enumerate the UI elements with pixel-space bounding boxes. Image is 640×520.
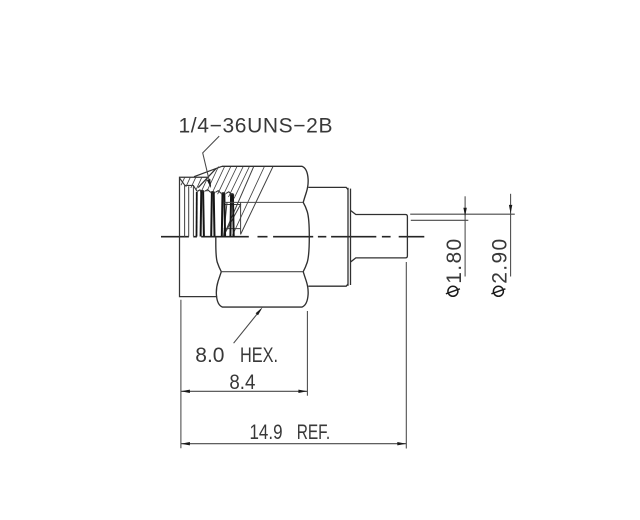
hatch strokes: [181, 167, 264, 236]
dim line dia 1.80: [464, 196, 466, 276]
thread root caps: [200, 191, 234, 196]
bore line third: [192, 186, 194, 236]
centerline: [161, 236, 424, 238]
section interior lines: [224, 202, 241, 235]
svg-text:8.4: 8.4: [229, 371, 255, 394]
extension line dia 2.90: [410, 213, 515, 215]
svg-text:8.0: 8.0: [195, 344, 224, 367]
svg-text:HEX.: HEX.: [240, 344, 278, 367]
dia symbol 2.90: [491, 286, 505, 296]
bore line left: [184, 186, 186, 237]
thread barrel chamfer and bore step: [180, 178, 197, 191]
svg-text:1/4−36UNS−2B: 1/4−36UNS−2B: [179, 114, 333, 137]
section boundary diagonal 1: [224, 166, 254, 236]
hex facet line lower: [221, 271, 303, 273]
end cylinder dia 2.90: [351, 211, 408, 262]
dim line 8.4: [181, 390, 308, 392]
dia symbol 1.80: [446, 286, 460, 296]
hex cone edge lower: [198, 169, 216, 188]
svg-text:14.9: 14.9: [250, 421, 283, 444]
extension line tip right: [405, 262, 407, 449]
hex facet line upper: [224, 201, 303, 203]
svg-text:1.80: 1.80: [443, 239, 466, 284]
hex leader: [234, 309, 261, 343]
hex leader arrowhead: [256, 307, 263, 315]
svg-text:2.90: 2.90: [488, 239, 511, 284]
thread flank strokes: [197, 191, 234, 237]
hex cone edge upper: [194, 166, 222, 176]
leader arrowhead: [207, 179, 211, 188]
thread crest zigzag: [197, 190, 233, 195]
dim line 14.9 REF: [181, 443, 406, 445]
bore line second: [188, 186, 190, 236]
hex body: [216, 166, 309, 307]
label leader 1/4-36UNS-2B: [203, 136, 220, 186]
dim line dia 2.90: [510, 194, 512, 277]
thread barrel outline: [180, 177, 217, 296]
flange: [308, 187, 350, 286]
extension line hex right: [306, 311, 308, 396]
extension line left: [180, 300, 182, 449]
section boundary diagonal 2: [241, 166, 274, 234]
extension line dia 1.80: [411, 219, 469, 221]
svg-text:REF.: REF.: [297, 421, 331, 444]
